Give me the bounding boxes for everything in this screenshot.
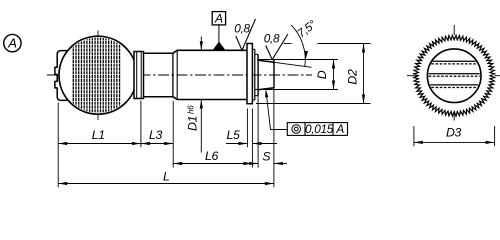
svg-text:L5: L5 [226,128,240,142]
flange D2 [247,44,252,104]
main shaft D1 section [173,50,247,53]
ball vertical centerline [97,31,99,121]
dimension L6 [173,163,252,165]
view label circle A [4,34,21,51]
dimension D2 extension lines [284,43,292,45]
dimension D extension lines [257,59,338,61]
dimension D1 h6 arrows [200,37,202,51]
svg-text:D2: D2 [346,69,360,85]
svg-text:A: A [214,12,223,26]
end view slot lines [433,60,476,62]
tapered indexing pin [257,54,259,95]
dimension L1 [58,143,141,145]
end view knurled rim [414,35,495,116]
svg-text:0,8: 0,8 [234,21,250,35]
tolerance leader arrow [266,91,287,130]
dimension L5 (flange width, outside arrows) [226,143,247,145]
svg-text:S: S [262,150,271,164]
datum A flag [212,12,225,25]
surface roughness 0,8 on shaft [236,19,256,50]
dimension S (outside arrows) [240,163,258,165]
extension lines for length dims [57,103,59,188]
dimension L3 [141,143,173,145]
step rings after flange [252,48,254,50]
svg-text:L1: L1 [92,128,105,142]
svg-text:L3: L3 [149,128,163,142]
svg-text:0,015: 0,015 [305,122,334,136]
dimension D3 [413,126,415,146]
svg-text:A: A [7,36,16,51]
svg-text:0,8: 0,8 [264,32,280,46]
svg-text:L6: L6 [205,149,219,163]
shaft neck section [144,52,173,54]
collar (bushing right of ball) [134,52,144,99]
ball knob outline [59,36,137,114]
concentricity tolerance frame [287,123,347,136]
svg-text:A: A [335,122,344,136]
main horizontal centerline [47,74,312,76]
svg-text:D: D [315,70,329,79]
dimension D [333,60,335,90]
7.5 deg taper angle dimension [291,25,305,67]
end view centerlines [407,75,500,77]
svg-text:L: L [163,170,170,184]
dimension D2 [363,44,365,104]
svg-text:D3: D3 [446,126,462,140]
end cap with slots (left of ball) [55,51,67,101]
end view inner circle [427,49,481,103]
surface roughness 0,8 on pin [266,34,288,60]
taper construction line extension [274,62,312,67]
dimension L (overall) [58,183,274,185]
